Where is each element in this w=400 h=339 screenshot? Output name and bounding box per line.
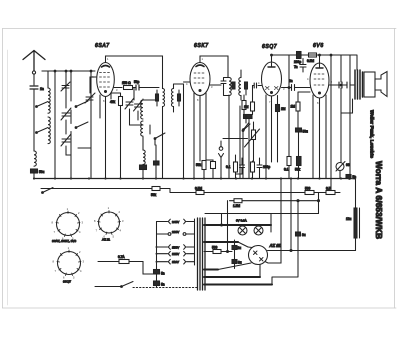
socket AZ11 (94, 206, 124, 239)
wire 6SA7 pins (100, 94, 111, 179)
svg-text:110V: 110V (172, 260, 180, 264)
switch mains B2 (42, 188, 53, 194)
svg-text:1M: 1M (244, 105, 249, 109)
node dots B1 (33, 177, 351, 180)
svg-text:8u: 8u (302, 233, 306, 237)
wire L1 top (42, 71, 48, 88)
wire 40k drop (111, 93, 121, 178)
resistor 2M (276, 105, 280, 112)
svg-text:0.5M: 0.5M (195, 187, 202, 191)
rectifier AZ11 (249, 246, 268, 265)
IF transformer T1b (172, 89, 181, 107)
wire T2 (224, 70, 247, 100)
trimmer C5 (134, 100, 143, 111)
dial lamp 2 (254, 226, 263, 235)
pickup jack (219, 141, 224, 178)
switch S5 (243, 123, 249, 131)
fuse lamp right (336, 162, 345, 172)
capacitor 5n row (236, 158, 245, 174)
resistor 500 on B2 (305, 191, 314, 195)
tap 230V (157, 230, 195, 236)
svg-text:6V6: 6V6 (313, 43, 324, 49)
svg-text:0.5: 0.5 (326, 187, 331, 191)
coil L3 antenna bottom (34, 151, 36, 166)
wire 6SQ7 grid left (253, 86, 262, 103)
wire 6SQ7 pins (266, 95, 278, 178)
svg-text:1M: 1M (291, 105, 296, 109)
wire AZ11 right to cap (268, 238, 356, 251)
svg-text:0.1: 0.1 (226, 165, 231, 169)
IF transformer T2 capacitor left (221, 81, 226, 84)
capacitor grid 6SQ7 (256, 83, 258, 88)
svg-text:40k: 40k (110, 100, 116, 104)
transformer winding 6.3V bottom (204, 277, 272, 285)
wire electrolytic top (350, 179, 356, 209)
svg-text:2u: 2u (238, 246, 242, 250)
svg-text:230V: 230V (172, 230, 180, 234)
wire heater bottom (260, 236, 298, 285)
capacitor 50u cathode (296, 128, 302, 132)
resistor 1.5M on B4 (234, 199, 242, 203)
svg-text:6SQ7: 6SQ7 (262, 44, 277, 50)
voltage selector taps (157, 219, 195, 264)
svg-text:6SA7, 6SK7, 6V6: 6SA7, 6SK7, 6V6 (52, 239, 76, 243)
svg-text:7n: 7n (294, 65, 298, 69)
resistor 50k right row (297, 157, 302, 166)
svg-text:0.1: 0.1 (284, 168, 289, 172)
svg-text:AZ 11: AZ 11 (269, 243, 282, 248)
node 6V6 grid top (319, 54, 321, 56)
wire speaker top (349, 55, 357, 70)
resistor row under 6SQ7: 0.1M (234, 162, 238, 172)
resistor 150 (124, 86, 133, 90)
svg-text:50u: 50u (39, 170, 45, 174)
svg-text:50k: 50k (151, 193, 157, 197)
wire left page riser (90, 77, 96, 93)
capacitor 50p (136, 85, 139, 90)
capacitor padder block (140, 165, 147, 170)
capacitor 5n sel 1 (154, 270, 160, 275)
svg-text:0.7A: 0.7A (118, 255, 125, 259)
wire secondary (54, 71, 56, 178)
wire caps (228, 240, 235, 269)
capacitor 5n right (346, 175, 351, 179)
fuse 0.7A line (98, 262, 156, 275)
svg-text:150V: 150V (172, 245, 180, 249)
trimmer C1 (61, 108, 71, 120)
socket 6SQ7 (53, 246, 85, 280)
wire right risers (331, 55, 350, 193)
wire 6SK7 grid left (184, 81, 191, 83)
antenna (23, 51, 45, 86)
svg-text:200p: 200p (294, 60, 301, 64)
electrolytic filter cap (354, 208, 360, 238)
IF transformer T2 (229, 78, 248, 96)
switch mains bottom (95, 286, 121, 288)
dial lamp 1 (238, 226, 247, 235)
svg-text:150 Ω: 150 Ω (122, 81, 131, 85)
capacitor 2u (232, 246, 237, 250)
svg-text:50k: 50k (196, 163, 202, 167)
resistor 0.1M right row (287, 157, 291, 166)
svg-text:50u: 50u (303, 130, 309, 134)
wire 6SA7 plate (114, 87, 122, 89)
coil L1 (48, 88, 50, 113)
svg-text:Worra A 6/653/WKB: Worra A 6/653/WKB (374, 161, 383, 239)
svg-text:6SA7: 6SA7 (95, 43, 110, 49)
wire 6SQ7 top (272, 55, 350, 62)
wire B1 down to AZ11 (265, 179, 281, 264)
oscillator coil (141, 100, 143, 136)
switch S1a (36, 102, 48, 108)
wire 6SK7 pins (194, 85, 221, 178)
svg-text:0.5M: 0.5M (307, 59, 314, 63)
svg-text:500: 500 (212, 246, 218, 250)
bus line B4 (230, 200, 319, 202)
tube 6SQ7 (262, 62, 282, 96)
wire T1 (157, 88, 163, 179)
wire trimmer riser (66, 71, 71, 155)
trimmer C3 (85, 93, 95, 103)
wire selector common (156, 222, 158, 288)
wire switch drops (71, 71, 91, 179)
wire T1b (174, 84, 184, 179)
transformer winding HT (204, 241, 238, 243)
svg-text:500: 500 (305, 187, 311, 191)
trimmer C2 (61, 134, 71, 146)
output transformer (355, 70, 363, 99)
svg-text:2M: 2M (281, 107, 286, 111)
tap 110V (157, 259, 195, 264)
svg-text:8u: 8u (238, 261, 242, 265)
wire drops middle (229, 95, 326, 178)
transformer winding heater AZ11 (204, 269, 218, 271)
svg-text:3n: 3n (289, 79, 293, 83)
capacitor 8u right (296, 232, 301, 236)
transformer winding 6.3V top (204, 224, 271, 226)
tap 240V (157, 219, 195, 224)
tube 6SA7 (97, 63, 115, 97)
wire fuse to bus (339, 171, 341, 179)
svg-text:AZ 11: AZ 11 (102, 238, 110, 242)
wire 6SK7 top cap (200, 56, 228, 77)
resistor 1M 6SQ7 (251, 102, 255, 111)
coil osc lower (143, 150, 145, 164)
switch S2b (75, 122, 88, 128)
tap 125V (157, 251, 195, 256)
wire B+ riser (290, 179, 292, 251)
wire osc section (130, 109, 144, 125)
volume pot (223, 122, 260, 161)
capacitor 3n coupling (292, 85, 295, 91)
wire antenna down (33, 89, 35, 151)
power transformer core (198, 218, 206, 290)
wire 6SA7 top cap (106, 56, 163, 89)
transformer primary winding edge (194, 219, 196, 265)
svg-text:6V 0.3A: 6V 0.3A (236, 219, 247, 223)
IF transformer T1 (156, 89, 165, 107)
wire coupling (282, 55, 311, 88)
capacitor T2 bottom (244, 115, 250, 119)
capacitor 200p top (297, 52, 302, 59)
switch S2a (75, 101, 88, 107)
wire HT to AZ11 (238, 242, 248, 247)
capacitor out 1 (339, 82, 342, 88)
resistor 50k on B2 (152, 187, 160, 191)
wire output transformer return (341, 99, 353, 113)
wire 6V6 top (319, 55, 321, 63)
capacitor 7n (300, 65, 306, 68)
speaker (364, 72, 387, 98)
wire top row (289, 54, 349, 56)
tube 6SK7 (190, 63, 210, 96)
wire mains dotted (133, 287, 198, 289)
capacitor 8u (232, 260, 237, 264)
resistor 6SK7 cathode (202, 161, 206, 170)
capacitor 100p row (257, 158, 262, 178)
capacitor 5n 6SQ7 (246, 115, 252, 119)
resistor 0.5M on B2 (196, 191, 204, 195)
wire top thin (205, 214, 319, 233)
resistor 0.5M row (251, 162, 255, 172)
svg-text:12u: 12u (346, 217, 352, 221)
node selector dots (156, 246, 158, 263)
resistor 0.5M top (309, 53, 317, 57)
resistor T2 bottom (243, 95, 245, 100)
wire grid feed (42, 70, 95, 72)
fuse 500 HT (204, 201, 228, 252)
wire plate to IF1 (133, 88, 160, 101)
svg-text:125V: 125V (172, 252, 180, 256)
svg-text:50p: 50p (134, 80, 140, 84)
switch S1b (36, 128, 48, 134)
resistor 6V6 cathode (296, 102, 300, 111)
capacitor antenna 1n (30, 86, 38, 89)
svg-text:6SQ7: 6SQ7 (63, 280, 71, 284)
socket 6SA7/6SK7/6V6 (52, 207, 84, 241)
bus line B2 (41, 189, 340, 193)
wire riser B2 to t-line (318, 193, 320, 214)
wire padder (142, 170, 144, 179)
bus line B1 (34, 178, 350, 180)
svg-text:240V: 240V (172, 220, 180, 224)
svg-text:1.5M: 1.5M (233, 204, 240, 208)
tube 6V6 (310, 63, 329, 98)
capacitor block mid (154, 161, 160, 165)
capacitor 5n sel 2 (154, 281, 160, 286)
wire to bus (33, 173, 35, 178)
node secondary top (54, 70, 56, 72)
svg-text:100p: 100p (263, 165, 270, 169)
wire AZ11 top (248, 246, 252, 249)
svg-text:5n: 5n (161, 283, 165, 287)
svg-text:50k: 50k (295, 168, 301, 172)
resistor 0.5 on B2 (326, 191, 335, 195)
switch S3 (150, 125, 165, 145)
svg-text:Weller Funk, Leuchte: Weller Funk, Leuchte (370, 110, 375, 158)
tap 150V (157, 245, 195, 250)
wire 6V6 plate right (329, 84, 354, 86)
capacitor 50u block (31, 169, 38, 173)
wire osc grid line (143, 99, 157, 101)
svg-text:1n: 1n (40, 87, 44, 91)
switch S4 (242, 124, 250, 139)
wire 6V6 pins (313, 95, 326, 179)
svg-text:60: 60 (346, 163, 350, 167)
trimmer C0 top (61, 82, 70, 91)
coil L2 (48, 117, 50, 144)
svg-text:6SK7: 6SK7 (194, 43, 209, 49)
wire osc coil (142, 99, 144, 150)
capacitor 6SK7 cathode (211, 162, 216, 169)
trimmer C4 (125, 98, 134, 109)
svg-text:5n: 5n (161, 272, 165, 276)
capacitor out 2 (347, 82, 350, 88)
resistor 40k (119, 97, 123, 106)
